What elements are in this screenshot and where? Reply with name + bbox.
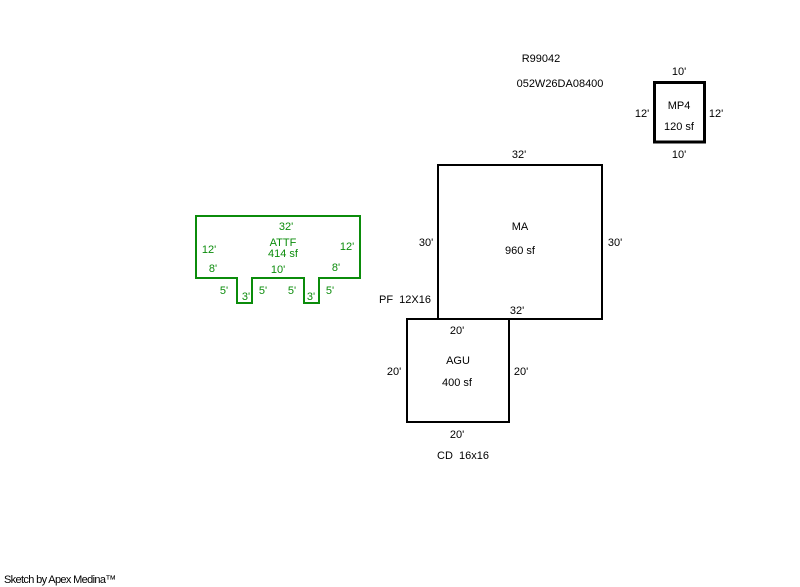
svg-text:R99042: R99042 (522, 53, 561, 65)
svg-text:30': 30' (608, 237, 622, 249)
svg-text:MA: MA (512, 221, 529, 233)
svg-text:MP4: MP4 (668, 100, 691, 112)
svg-text:10': 10' (271, 264, 285, 276)
svg-text:12': 12' (635, 108, 649, 120)
svg-text:5': 5' (326, 285, 334, 297)
svg-text:120 sf: 120 sf (664, 121, 695, 133)
svg-text:400 sf: 400 sf (442, 377, 473, 389)
svg-text:8': 8' (332, 262, 340, 274)
svg-text:20': 20' (450, 429, 464, 441)
svg-text:12': 12' (202, 244, 216, 256)
svg-text:12': 12' (340, 241, 354, 253)
svg-text:10': 10' (672, 66, 686, 78)
svg-text:3': 3' (307, 291, 315, 303)
svg-text:AGU: AGU (446, 355, 470, 367)
svg-text:3': 3' (242, 291, 250, 303)
svg-text:32': 32' (279, 221, 293, 233)
svg-text:30': 30' (419, 237, 433, 249)
svg-text:5': 5' (220, 285, 228, 297)
svg-text:32': 32' (512, 149, 526, 161)
svg-text:PF 12X16: PF 12X16 (379, 294, 431, 306)
svg-text:20': 20' (387, 366, 401, 378)
svg-text:20': 20' (514, 366, 528, 378)
svg-text:5': 5' (288, 285, 296, 297)
svg-text:10': 10' (672, 149, 686, 161)
svg-text:5': 5' (259, 285, 267, 297)
svg-text:32': 32' (510, 305, 524, 317)
svg-text:8': 8' (209, 263, 217, 275)
svg-text:12': 12' (709, 108, 723, 120)
svg-text:052W26DA08400: 052W26DA08400 (517, 78, 604, 90)
svg-text:414 sf: 414 sf (268, 248, 299, 260)
svg-text:20': 20' (450, 325, 464, 337)
svg-text:960 sf: 960 sf (505, 245, 536, 257)
svg-text:CD 16x16: CD 16x16 (437, 450, 489, 462)
svg-text:Sketch by Apex Medina™: Sketch by Apex Medina™ (4, 574, 116, 586)
